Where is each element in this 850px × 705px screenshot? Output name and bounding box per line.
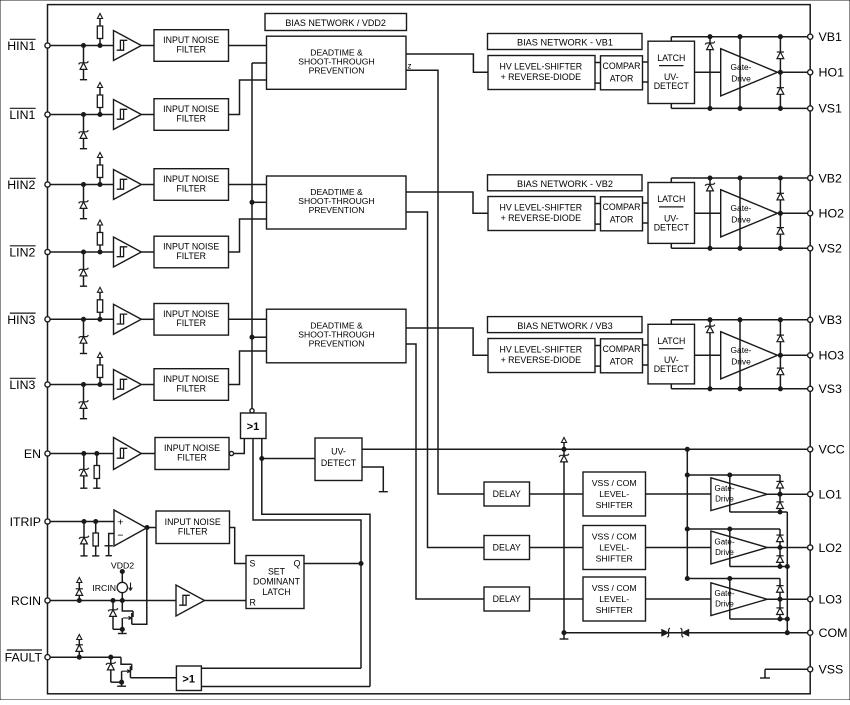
svg-text:COMPAR: COMPAR bbox=[603, 202, 641, 212]
box input noise filter HIN3 bbox=[154, 304, 229, 336]
svg-text:VCC: VCC bbox=[819, 443, 845, 457]
box input noise filter LIN3 bbox=[154, 369, 229, 401]
diode clamp upper LO2 bbox=[776, 529, 783, 548]
zener diode VB3 rail bbox=[705, 320, 715, 389]
svg-text:HO3: HO3 bbox=[819, 349, 845, 363]
wire inner vertical LO1 bbox=[729, 475, 731, 512]
zener FAULT gate clamp bbox=[106, 657, 122, 682]
wire HO1 output bbox=[778, 70, 808, 74]
svg-text:VSS / COM: VSS / COM bbox=[592, 478, 637, 488]
wire mid rail 2 bbox=[739, 178, 741, 248]
wire HIN3 input bbox=[50, 318, 113, 320]
schmitt buffer HIN1 bbox=[114, 31, 142, 61]
svg-text:S: S bbox=[250, 559, 256, 569]
pin COM bbox=[808, 626, 848, 640]
wire deadtime3 to HV level-shifter 3 bbox=[406, 328, 488, 355]
wire deadtime1 to HV level-shifter 1 bbox=[406, 54, 488, 72]
zener clamp diode HIN1 bbox=[79, 46, 89, 80]
zener pull-down ITRIP bbox=[79, 522, 89, 556]
pull-up resistor LIN2 bbox=[97, 220, 102, 254]
pin label LIN3 bbox=[9, 378, 35, 392]
wire latch stubs VB1 VS1 bbox=[670, 37, 672, 109]
pull-up resistor HIN2 bbox=[97, 153, 102, 187]
schmitt buffer RCIN bbox=[176, 585, 205, 616]
pin LIN1 bbox=[45, 112, 50, 117]
svg-text:PREVENTION: PREVENTION bbox=[309, 66, 365, 76]
node z label bbox=[408, 62, 412, 71]
diode COM reverse bbox=[681, 628, 689, 637]
pin VS1 bbox=[808, 102, 842, 116]
wire deadtime2 low-side to delay2 bbox=[406, 212, 484, 548]
schmitt buffer LIN3 bbox=[114, 370, 142, 400]
svg-text:+ REVERSE-DIODE: + REVERSE-DIODE bbox=[501, 213, 582, 223]
box comparator 2 bbox=[601, 197, 643, 231]
wire LO3 output bbox=[767, 597, 807, 601]
svg-text:DETECT: DETECT bbox=[654, 364, 690, 374]
pin HIN3 bbox=[45, 317, 50, 322]
junction FAULT clamp bbox=[77, 655, 81, 659]
resistor pull-down ITRIP bbox=[92, 522, 99, 556]
inverter bubble EN filter output bbox=[229, 451, 233, 455]
svg-text:HV LEVEL-SHIFTER: HV LEVEL-SHIFTER bbox=[499, 345, 582, 355]
svg-text:DOMINANT: DOMINANT bbox=[253, 577, 301, 587]
zener diode VB2 rail bbox=[705, 178, 715, 248]
box comparator 1 bbox=[601, 56, 643, 90]
svg-text:LEVEL-: LEVEL- bbox=[599, 543, 629, 553]
wire bottom rail LO2 bbox=[730, 564, 788, 568]
wire delay3 to level-shifter bbox=[530, 598, 584, 600]
svg-text:HO1: HO1 bbox=[819, 66, 845, 80]
svg-text:SHIFTER: SHIFTER bbox=[596, 554, 633, 564]
svg-text:HV LEVEL-SHIFTER: HV LEVEL-SHIFTER bbox=[499, 62, 582, 72]
junction LIN3 clamp node bbox=[81, 382, 85, 386]
schmitt buffer LIN2 bbox=[114, 237, 142, 267]
box bias network VB3 bbox=[488, 317, 643, 333]
box input noise filter LIN1 bbox=[154, 99, 229, 131]
junction RCIN clamp bbox=[77, 598, 81, 602]
wire deadtime2 to HV level-shifter 2 bbox=[406, 192, 488, 213]
svg-text:SHIFTER: SHIFTER bbox=[596, 605, 633, 615]
svg-text:z: z bbox=[408, 62, 412, 71]
svg-text:LATCH: LATCH bbox=[657, 53, 685, 63]
svg-text:Gate-: Gate- bbox=[731, 203, 752, 213]
svg-text:DETECT: DETECT bbox=[321, 458, 357, 468]
svg-text:+: + bbox=[117, 517, 123, 529]
zener clamp diode LIN1 bbox=[79, 115, 89, 149]
zener clamp diode HIN2 bbox=[79, 185, 89, 219]
svg-text:Gate-: Gate- bbox=[731, 62, 752, 72]
wire FAULT input bbox=[50, 656, 121, 658]
wire LIN2 buffer to filter bbox=[141, 251, 154, 253]
pin EN bbox=[45, 451, 50, 456]
svg-text:>1: >1 bbox=[247, 421, 260, 433]
diode clamp lower HO1 bbox=[777, 72, 784, 108]
diode clamp lower HO2 bbox=[777, 213, 784, 248]
pin label HIN2 bbox=[7, 178, 35, 192]
svg-text:COM: COM bbox=[819, 626, 848, 640]
svg-text:FILTER: FILTER bbox=[176, 318, 206, 328]
pull-up resistor HIN3 bbox=[97, 287, 102, 321]
pin label EN bbox=[24, 447, 41, 461]
wire uv-detect ground branch bbox=[362, 467, 388, 492]
svg-text:UV-: UV- bbox=[331, 447, 346, 457]
junction LIN1 clamp node bbox=[81, 112, 85, 116]
pin LO1 bbox=[808, 488, 842, 502]
svg-text:DETECT: DETECT bbox=[654, 81, 690, 91]
diode clamp upper LO3 bbox=[776, 579, 783, 600]
wire latch stubs VB3 VS3 bbox=[670, 320, 672, 389]
gate-drive buffer LO1 bbox=[711, 478, 767, 511]
svg-text:Drive: Drive bbox=[731, 214, 751, 224]
box latch uv-detect 3 bbox=[648, 324, 695, 384]
box delay 3 bbox=[484, 587, 530, 611]
box BIAS NETWORK / VDD2 bbox=[265, 14, 407, 31]
wire LIN1 filter to deadtime1 bbox=[229, 80, 267, 115]
svg-text:COMPAR: COMPAR bbox=[603, 61, 641, 71]
zener RCIN gate clamp bbox=[108, 601, 122, 630]
svg-text:FILTER: FILTER bbox=[176, 113, 206, 123]
ground tick RCIN bbox=[118, 629, 127, 633]
svg-text:VSS / COM: VSS / COM bbox=[592, 583, 637, 593]
junction RCIN mosfet nodes bbox=[111, 598, 124, 602]
svg-text:HIN2: HIN2 bbox=[7, 178, 35, 192]
schmitt buffer EN bbox=[114, 438, 142, 470]
ground tick FAULT bbox=[117, 682, 126, 686]
svg-text:SHIFTER: SHIFTER bbox=[596, 500, 633, 510]
svg-text:R: R bbox=[250, 598, 256, 608]
wire LO2 output bbox=[767, 545, 807, 549]
svg-text:Gate-: Gate- bbox=[714, 589, 734, 598]
pin LO3 bbox=[808, 593, 842, 607]
current source IRCIN bbox=[92, 572, 132, 601]
mosfet FAULT open-drain bbox=[121, 657, 132, 682]
svg-text:Drive: Drive bbox=[715, 495, 734, 504]
wire VSS bbox=[765, 669, 808, 678]
wire HO2 output bbox=[778, 211, 808, 215]
pin label FAULT bbox=[5, 650, 43, 665]
zener clamp diode LIN2 bbox=[79, 252, 89, 286]
svg-text:HIN1: HIN1 bbox=[7, 39, 35, 53]
wire comparator to latch 3 bbox=[643, 345, 649, 365]
junction B to uv-detect bbox=[260, 456, 264, 460]
pin HO2 bbox=[808, 207, 844, 221]
pin FAULT bbox=[45, 655, 50, 660]
wire LIN1 input bbox=[50, 114, 113, 116]
wire LO return vertical to COM bbox=[785, 512, 789, 633]
wire LIN3 buffer to filter bbox=[141, 384, 154, 386]
svg-text:Drive: Drive bbox=[731, 356, 751, 366]
svg-text:LEVEL-: LEVEL- bbox=[599, 594, 629, 604]
pin VS3 bbox=[808, 382, 842, 396]
pin label LIN2 bbox=[9, 246, 35, 260]
svg-text:+ REVERSE-DIODE: + REVERSE-DIODE bbox=[501, 355, 582, 365]
schmitt buffer LIN1 bbox=[114, 100, 142, 130]
wire EN filter to OR1 bbox=[234, 439, 245, 454]
svg-text:FILTER: FILTER bbox=[176, 44, 206, 54]
pull-up resistor LIN3 bbox=[97, 353, 102, 387]
box bias network VB2 bbox=[488, 175, 643, 191]
gate-drive buffer HO1 bbox=[695, 49, 778, 96]
svg-text:VB1: VB1 bbox=[819, 30, 843, 44]
box input noise filter EN bbox=[155, 438, 229, 470]
junction VCC rail taps bbox=[562, 447, 689, 451]
ground tick VSS bbox=[760, 677, 770, 679]
junction HIN2 clamp node bbox=[81, 182, 85, 186]
inverter bubble OR1 top input bbox=[250, 409, 254, 413]
box HV level-shifter 1 bbox=[488, 56, 595, 90]
wire RCIN mosfet gate from comparator bbox=[132, 528, 147, 625]
junction ITRIP nodes bbox=[82, 519, 98, 523]
svg-text:PREVENTION: PREVENTION bbox=[309, 339, 365, 349]
diode clamp upper HO2 bbox=[777, 178, 784, 213]
svg-text:LO2: LO2 bbox=[819, 541, 843, 555]
gate-drive buffer HO2 bbox=[695, 190, 778, 237]
pin label LIN1 bbox=[9, 108, 35, 122]
svg-text:DELAY: DELAY bbox=[493, 594, 521, 604]
wire level-shifter to comparator 3 bbox=[595, 346, 601, 367]
svg-text:VSS: VSS bbox=[819, 663, 844, 677]
svg-text:BIAS NETWORK / VB3: BIAS NETWORK / VB3 bbox=[517, 321, 612, 331]
pin VB3 bbox=[808, 313, 842, 327]
clamp diode FAULT to VDD bbox=[76, 635, 83, 658]
wire level-shifter3 to gate-drive bbox=[646, 598, 711, 600]
junction RCIN source bbox=[120, 627, 124, 631]
svg-text:IRCIN: IRCIN bbox=[92, 583, 116, 593]
pin LIN2 bbox=[45, 249, 50, 254]
svg-text:VB2: VB2 bbox=[819, 171, 843, 185]
box vss-com level-shifter 2 bbox=[583, 526, 646, 570]
wire enable net vertical bbox=[250, 63, 267, 409]
diode clamp lower LO2 bbox=[776, 548, 783, 567]
svg-text:VB3: VB3 bbox=[819, 313, 843, 327]
pin label RCIN bbox=[11, 594, 41, 608]
junction FAULT source bbox=[120, 680, 124, 684]
wire HIN2 input bbox=[50, 184, 113, 186]
gate-drive buffer HO3 bbox=[695, 332, 778, 379]
wire VCC feed vertical to LO drivers bbox=[685, 449, 689, 580]
diode COM forward bbox=[662, 628, 670, 637]
pin VCC bbox=[808, 443, 845, 457]
svg-text:COMPAR: COMPAR bbox=[603, 344, 641, 354]
or-gate OR1 enable bbox=[241, 413, 267, 439]
box input noise filter HIN1 bbox=[154, 30, 229, 62]
wire HO3 output bbox=[778, 353, 808, 357]
schmitt buffer HIN3 bbox=[114, 304, 142, 334]
wire B branch to uv-detect bbox=[262, 458, 315, 460]
svg-text:PREVENTION: PREVENTION bbox=[309, 205, 365, 215]
svg-text:BIAS NETWORK / VDD2: BIAS NETWORK / VDD2 bbox=[285, 18, 386, 28]
svg-text:VSS / COM: VSS / COM bbox=[592, 532, 637, 542]
wire VS3 rail bbox=[671, 387, 807, 391]
wire delay1 to level-shifter bbox=[530, 493, 584, 495]
wire top rail LO1 bbox=[687, 473, 780, 477]
clamp diode RCIN to VDD bbox=[76, 578, 83, 601]
svg-text:BIAS NETWORK - VB2: BIAS NETWORK - VB2 bbox=[517, 179, 613, 189]
junction A meets latch Q bbox=[359, 561, 363, 565]
svg-text:VS3: VS3 bbox=[819, 382, 843, 396]
wire VS2 rail bbox=[671, 246, 807, 250]
wire VB2 rail bbox=[671, 176, 807, 180]
junction FAULT zener node bbox=[109, 655, 113, 659]
svg-text:LO3: LO3 bbox=[819, 593, 843, 607]
svg-text:DELAY: DELAY bbox=[493, 543, 521, 553]
box deadtime shoot-through prevention 1 bbox=[267, 36, 407, 89]
junction LIN2 clamp node bbox=[81, 250, 85, 254]
wire LO1 output bbox=[767, 492, 807, 496]
svg-text:VS1: VS1 bbox=[819, 102, 843, 116]
box bias network VB1 bbox=[488, 34, 643, 50]
gate-drive buffer LO2 bbox=[711, 531, 767, 564]
box delay 1 bbox=[484, 482, 530, 506]
svg-text:LATCH: LATCH bbox=[262, 587, 290, 597]
box deadtime shoot-through prevention 2 bbox=[267, 176, 407, 229]
box HV level-shifter 2 bbox=[488, 197, 595, 231]
zener pull-down EN bbox=[79, 454, 89, 489]
svg-text:RCIN: RCIN bbox=[11, 594, 41, 608]
wire latch Q output bbox=[304, 563, 361, 565]
pull-up resistor HIN1 bbox=[97, 14, 102, 48]
wire OR1 out B to uv and OR2 bbox=[262, 439, 370, 687]
pin label HIN1 bbox=[7, 39, 35, 53]
svg-text:DETECT: DETECT bbox=[654, 222, 690, 232]
svg-text:ATOR: ATOR bbox=[610, 356, 634, 366]
box delay 2 bbox=[484, 536, 530, 560]
reference at comparator minus input bbox=[105, 534, 115, 556]
svg-text:SET: SET bbox=[268, 566, 286, 576]
box set dominant latch bbox=[246, 556, 304, 609]
wire comparator to ITRIP filter bbox=[147, 527, 157, 529]
wire RCIN input bbox=[50, 600, 176, 602]
wire EN input bbox=[50, 453, 113, 455]
wire uv-detect to VCC rail bbox=[362, 448, 808, 450]
wire top rail LO3 bbox=[687, 576, 780, 580]
diode clamp lower HO3 bbox=[777, 355, 784, 389]
svg-text:HO2: HO2 bbox=[819, 207, 845, 221]
wire LIN2 filter to deadtime2 bbox=[229, 219, 267, 252]
svg-text:BIAS NETWORK - VB1: BIAS NETWORK - VB1 bbox=[517, 38, 613, 48]
wire LIN2 input bbox=[50, 251, 113, 253]
pin VS2 bbox=[808, 242, 842, 256]
wire delay2 to level-shifter bbox=[530, 547, 584, 549]
pin HO1 bbox=[808, 66, 844, 80]
wire bottom rail LO1 bbox=[730, 510, 788, 514]
zener clamp diode HIN3 bbox=[79, 319, 89, 353]
node VDD2 label bbox=[111, 561, 134, 574]
box HV level-shifter 3 bbox=[488, 339, 595, 373]
svg-text:+ REVERSE-DIODE: + REVERSE-DIODE bbox=[501, 72, 582, 82]
box vss-com level-shifter 3 bbox=[583, 577, 646, 621]
wire HIN2 filter to deadtime2 bbox=[229, 184, 267, 186]
junction ITRIP comparator output bbox=[145, 525, 149, 529]
box input noise filter HIN2 bbox=[154, 169, 229, 201]
svg-text:Drive: Drive bbox=[715, 600, 734, 609]
box deadtime shoot-through prevention 3 bbox=[267, 309, 407, 363]
wire HIN3 buffer to filter bbox=[141, 318, 154, 320]
wire LIN1 buffer to filter bbox=[141, 114, 154, 116]
wire deadtime1 low-side to delay1 bbox=[406, 70, 484, 494]
gate-drive buffer LO3 bbox=[711, 583, 767, 616]
svg-text:HV LEVEL-SHIFTER: HV LEVEL-SHIFTER bbox=[499, 203, 582, 213]
pin RCIN bbox=[45, 598, 50, 603]
svg-text:Gate-: Gate- bbox=[731, 345, 752, 355]
pin LO2 bbox=[808, 541, 842, 555]
wire mid rail 1 bbox=[739, 37, 741, 109]
comparator ITRIP bbox=[114, 510, 147, 546]
box input noise filter ITRIP bbox=[156, 511, 230, 544]
wire comparator to latch 1 bbox=[643, 62, 649, 82]
box latch uv-detect 1 bbox=[648, 41, 695, 103]
wire comparator to latch 2 bbox=[643, 203, 649, 223]
wire COM rail bbox=[562, 631, 808, 635]
mosfet RCIN discharge bbox=[122, 601, 133, 630]
wire HIN1 filter to deadtime1 bbox=[229, 45, 267, 47]
arrow VDD at VCC zener bbox=[561, 438, 566, 450]
resistor pull-down EN bbox=[93, 454, 100, 489]
junction EN nodes bbox=[82, 451, 99, 455]
zener clamp diode LIN3 bbox=[79, 385, 89, 419]
wire LIN3 input bbox=[50, 384, 113, 386]
svg-text:DELAY: DELAY bbox=[493, 489, 521, 499]
wire level-shifter to comparator 2 bbox=[595, 204, 601, 225]
diode clamp upper LO1 bbox=[776, 475, 783, 494]
svg-text:LO1: LO1 bbox=[819, 488, 843, 502]
diode clamp lower LO1 bbox=[776, 494, 783, 512]
junction HIN3 clamp node bbox=[81, 317, 85, 321]
svg-text:FILTER: FILTER bbox=[177, 452, 207, 462]
wire OR2 input from latch Q net bbox=[201, 667, 361, 669]
wire VB3 rail bbox=[671, 318, 807, 322]
svg-text:LIN1: LIN1 bbox=[9, 108, 35, 122]
svg-text:ITRIP: ITRIP bbox=[10, 515, 41, 529]
wire HIN3 filter to deadtime3 bbox=[229, 318, 267, 320]
wire OR2 input from B net bbox=[201, 686, 370, 688]
svg-text:HIN3: HIN3 bbox=[7, 313, 35, 327]
svg-text:−: − bbox=[117, 530, 123, 542]
wire mid rail 3 bbox=[739, 320, 741, 389]
svg-text:FILTER: FILTER bbox=[178, 526, 208, 536]
svg-text:FILTER: FILTER bbox=[176, 183, 206, 193]
wire HIN1 input bbox=[50, 45, 113, 47]
zener diode VB1 rail bbox=[705, 37, 715, 109]
wire OR1 out A to latch Q net bbox=[253, 439, 361, 669]
wire HIN2 buffer to filter bbox=[141, 184, 154, 186]
wire HIN1 buffer to filter bbox=[141, 45, 154, 47]
box comparator 3 bbox=[601, 339, 643, 373]
wire ITRIP filter to latch S bbox=[230, 528, 247, 564]
wire bottom rail LO3 bbox=[730, 617, 788, 621]
pin label ITRIP bbox=[10, 515, 41, 529]
pin VSS bbox=[808, 663, 844, 677]
wire latch stubs VB2 VS2 bbox=[670, 178, 672, 248]
svg-text:LATCH: LATCH bbox=[657, 194, 685, 204]
box vss-com level-shifter 1 bbox=[583, 472, 646, 516]
wire level-shifter to comparator 1 bbox=[595, 63, 601, 84]
svg-text:FILTER: FILTER bbox=[176, 251, 206, 261]
pin label HIN3 bbox=[7, 313, 35, 327]
wire VB1 rail bbox=[671, 35, 807, 39]
pin HIN2 bbox=[45, 182, 50, 187]
wire EN buffer to filter bbox=[141, 453, 155, 455]
wire FAULT gate from OR2 bbox=[130, 677, 176, 679]
svg-text:Gate-: Gate- bbox=[714, 484, 734, 493]
svg-text:EN: EN bbox=[24, 447, 41, 461]
svg-text:ATOR: ATOR bbox=[610, 214, 634, 224]
pin VB1 bbox=[808, 30, 842, 44]
wire inner vertical LO2 bbox=[729, 529, 731, 567]
wire inner vertical LO3 bbox=[729, 579, 731, 620]
wire VS1 rail bbox=[671, 106, 807, 110]
wire top rail LO2 bbox=[687, 527, 780, 531]
